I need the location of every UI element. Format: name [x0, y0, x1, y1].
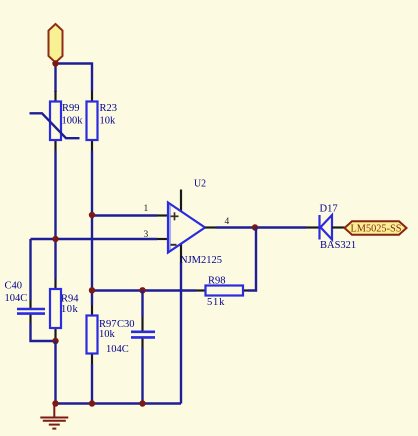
svg-text:100k: 100k	[62, 116, 84, 127]
svg-text:D17: D17	[320, 204, 338, 215]
junction plus tap	[89, 212, 95, 218]
label D17	[320, 204, 338, 215]
pin number 1	[144, 204, 149, 214]
label R99	[62, 103, 80, 114]
port label LM5025-SS	[351, 224, 402, 235]
ground	[40, 404, 68, 429]
junction rail left	[52, 400, 58, 406]
wire hexagon to R99	[54, 62, 56, 92]
junction top node	[52, 60, 58, 66]
svg-text:104C: 104C	[106, 344, 129, 355]
value 104C C30	[106, 344, 129, 355]
op-amp plus mark	[171, 212, 179, 220]
wire plus input	[92, 214, 157, 216]
op-amp minus mark	[171, 244, 177, 246]
resistor R99	[50, 102, 61, 141]
wire bottom rail	[56, 402, 182, 404]
power port hexagon	[49, 24, 63, 63]
resistor R23 pins	[91, 91, 93, 151]
wire R97 to rail	[91, 364, 93, 404]
value 10k R23	[100, 116, 117, 127]
capacitor C40 pins	[29, 300, 31, 323]
junction feedback at C30 line	[139, 287, 145, 293]
resistor R98 pins	[196, 289, 248, 291]
capacitor C40	[17, 309, 45, 314]
svg-text:10k: 10k	[100, 116, 117, 127]
wire feedback vertical	[248, 228, 256, 291]
junction output node	[252, 224, 258, 230]
svg-text:R94: R94	[61, 294, 79, 305]
svg-text:R98: R98	[208, 276, 226, 287]
svg-text:BAS321: BAS321	[320, 240, 356, 251]
capacitor C40 branch lower wire	[31, 323, 56, 341]
junction feedback at R23 line	[89, 287, 95, 293]
op-amp ground pin stub	[180, 243, 182, 262]
resistor R98	[206, 286, 244, 296]
pin 3 stub	[157, 238, 168, 240]
label R94	[61, 294, 79, 305]
label C40	[5, 281, 23, 292]
wire R99 to minus node	[54, 151, 56, 279]
svg-text:NJM2125: NJM2125	[180, 255, 222, 266]
value 104C C40	[5, 293, 28, 304]
op-amp power pin stub	[180, 190, 182, 213]
label BAS321	[320, 240, 356, 251]
label R98	[208, 276, 226, 287]
capacitor C30	[131, 332, 155, 338]
label R23	[100, 103, 118, 114]
svg-text:U2: U2	[194, 179, 206, 190]
svg-text:LM5025-SS: LM5025-SS	[351, 224, 402, 235]
op-amp output pin stub	[205, 226, 216, 228]
svg-text:1: 1	[144, 204, 149, 214]
port LM5025-SS	[345, 221, 407, 234]
resistor R97 pins	[91, 305, 93, 364]
wire minus input	[31, 238, 158, 240]
svg-text:C40: C40	[5, 281, 23, 292]
label U2	[194, 179, 206, 190]
label R97	[99, 319, 117, 330]
wire top node horizontal	[56, 64, 93, 92]
svg-text:4: 4	[225, 217, 230, 227]
junction rail R97	[89, 400, 95, 406]
diode D17 right pin	[332, 226, 345, 228]
svg-text:R99: R99	[62, 103, 80, 114]
value 10k R94	[61, 304, 79, 315]
junction R94 bottom	[52, 338, 58, 344]
svg-text:R23: R23	[100, 103, 118, 114]
pin number 3	[144, 230, 149, 240]
resistor R94 pins	[54, 279, 56, 341]
wire op-amp ground down	[180, 262, 182, 404]
svg-text:104C: 104C	[5, 293, 28, 304]
wire R94 to rail	[54, 341, 56, 404]
resistor R97	[87, 316, 98, 354]
pin 1 stub	[157, 214, 168, 216]
wire output	[216, 226, 306, 228]
thermistor stroke R99	[30, 113, 80, 138]
label C30	[117, 319, 135, 330]
resistor R99 pins	[54, 91, 56, 151]
wire R23 down through taps	[91, 151, 93, 305]
resistor R94	[50, 289, 61, 328]
svg-text:51k: 51k	[207, 297, 225, 308]
op-amp U2 triangle	[168, 203, 205, 253]
diode D17	[320, 215, 333, 240]
value 51k	[207, 297, 225, 308]
value 100k	[62, 116, 84, 127]
svg-text:C30: C30	[117, 319, 135, 330]
svg-text:3: 3	[144, 230, 149, 240]
label NJM2125	[180, 255, 222, 266]
resistor R23	[87, 102, 98, 141]
pin number 4	[225, 217, 230, 227]
capacitor C40 branch upper wire	[29, 239, 31, 300]
svg-text:10k: 10k	[99, 329, 116, 340]
junction rail C30	[139, 400, 145, 406]
wire feedback horizontal	[92, 289, 196, 291]
value 10k R97	[99, 329, 116, 340]
junction minus tap	[52, 236, 58, 242]
wire C30 lower	[141, 348, 143, 404]
capacitor C30 pins	[141, 317, 143, 348]
wire C30 upper	[141, 291, 143, 318]
svg-text:10k: 10k	[61, 304, 79, 315]
diode D17 left pin	[306, 226, 320, 228]
